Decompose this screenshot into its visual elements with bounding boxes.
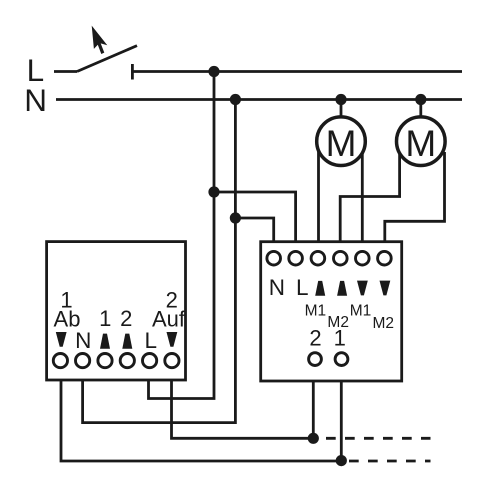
svg-text:L: L: [145, 328, 158, 353]
svg-text:M1: M1: [305, 303, 327, 320]
svg-text:M2: M2: [373, 315, 395, 332]
svg-text:M1: M1: [350, 303, 372, 320]
svg-text:Auf: Auf: [152, 306, 186, 331]
svg-text:M: M: [326, 123, 357, 164]
svg-text:L: L: [296, 275, 309, 300]
svg-text:N: N: [269, 275, 285, 300]
svg-text:M: M: [405, 123, 436, 164]
svg-text:N: N: [24, 82, 47, 118]
svg-text:1: 1: [334, 326, 346, 351]
svg-text:2: 2: [309, 326, 321, 351]
svg-text:1: 1: [99, 306, 111, 331]
svg-text:2: 2: [120, 306, 132, 331]
svg-text:N: N: [75, 328, 91, 353]
